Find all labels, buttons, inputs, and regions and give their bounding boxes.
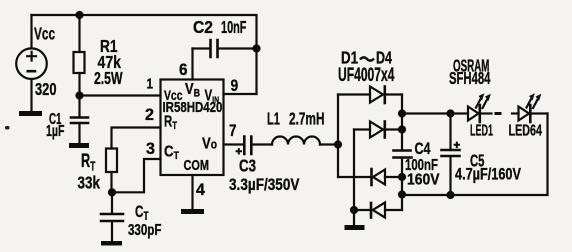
label 100nF [405, 156, 438, 173]
label 4.7µF/160V [455, 165, 521, 184]
capacitor C4 [394, 151, 412, 158]
LED LED1 [468, 93, 491, 122]
svg-text:9: 9 [231, 77, 239, 96]
label 160V [407, 172, 440, 189]
svg-text:6: 6 [179, 60, 188, 79]
label SFH484 [449, 70, 491, 89]
svg-text:1: 1 [147, 75, 154, 92]
ground (below C1) [69, 143, 89, 148]
label R1 [100, 38, 118, 57]
label RT [81, 151, 96, 174]
source Vcc [16, 15, 47, 111]
label VIN (IC pin name) [205, 86, 220, 106]
svg-text:3: 3 [146, 139, 155, 158]
junction dot pin1 node [75, 91, 83, 99]
label CT [135, 203, 149, 223]
svg-text:Vo: Vo [202, 135, 217, 153]
pin number 1 [147, 75, 154, 92]
svg-text:4.7µF/160V: 4.7µF/160V [455, 165, 521, 184]
svg-text:2.5W: 2.5W [94, 69, 123, 89]
wire pin 7 Vo [224, 143, 244, 145]
svg-text:UF4007x4: UF4007x4 [338, 65, 395, 85]
ground (below CT) [101, 241, 122, 246]
ground (bus B) [345, 210, 365, 230]
label ~ (of D1~D4) [360, 57, 374, 60]
wire top rail left [32, 14, 80, 16]
svg-text:4: 4 [196, 180, 206, 199]
pin number 9 [231, 77, 239, 96]
label C2 [193, 17, 213, 37]
inductor L1 [272, 137, 320, 145]
label Vo (IC pin name) [202, 135, 217, 153]
junction dot bus B/D4 [350, 206, 358, 214]
pin number 4 [196, 180, 206, 199]
junction dot C2/VIN [252, 44, 260, 52]
wire pin 6 stub [191, 49, 193, 80]
label 2.7mH [289, 109, 324, 129]
pin number 7 [229, 122, 236, 141]
LED LED64 [519, 93, 542, 122]
junction dot bus/D2 [398, 125, 406, 133]
resistor RT [106, 149, 117, 193]
label L1 [267, 110, 280, 129]
svg-text:100nF: 100nF [405, 156, 438, 173]
label 3.3µF/350V [229, 176, 300, 195]
wire right bus top [401, 95, 403, 151]
label VB (IC pin name) [185, 81, 200, 100]
wire LED64 to right edge [532, 112, 548, 114]
wire LED64 anode stub [512, 112, 519, 114]
svg-text:C3: C3 [239, 157, 256, 176]
svg-text:7: 7 [229, 122, 236, 141]
label 1µF [46, 122, 64, 140]
junction dot C5 top [446, 109, 454, 117]
svg-text:COM: COM [184, 156, 209, 173]
wire right bus lower [401, 159, 403, 210]
svg-text:320: 320 [35, 80, 57, 100]
pin number 6 [179, 60, 188, 79]
wire pin 9 [224, 93, 257, 95]
wire node A bus [337, 95, 339, 178]
capacitor C1 [71, 96, 88, 144]
label D1 (of D1~D4) [341, 49, 358, 68]
svg-text:Vcc: Vcc [34, 24, 55, 44]
wire right edge + bottom rail [402, 114, 548, 196]
capacitor C5 polarized [442, 114, 461, 196]
label 2.5W [94, 69, 123, 89]
label CT (IC pin name) [164, 143, 180, 162]
svg-text:C2: C2 [193, 17, 213, 37]
label C1 [49, 110, 62, 128]
svg-text:L1: L1 [267, 110, 280, 129]
pin number 3 [146, 139, 155, 158]
label RT (IC pin name) [164, 112, 177, 133]
label C4 [415, 139, 432, 158]
ground (below source) [19, 111, 42, 116]
svg-text:33k: 33k [78, 174, 101, 193]
diode D3 [338, 169, 402, 185]
label C5 [470, 151, 484, 171]
wire LED1 cathode stub [481, 112, 492, 114]
junction dot bus/bottom rail [398, 190, 406, 198]
diode D1 [338, 87, 402, 104]
label 47k [98, 52, 121, 72]
svg-text:1µF: 1µF [46, 122, 64, 140]
junction dot C5 bottom [446, 191, 454, 199]
label OSRAM [453, 57, 489, 77]
pin number 2 [145, 105, 154, 124]
svg-text:SFH484: SFH484 [449, 70, 491, 89]
label COM (IC pin name) [184, 156, 209, 173]
svg-text:3.3µF/350V: 3.3µF/350V [229, 176, 300, 195]
wire pin 2 to RT [112, 128, 161, 149]
svg-text:330pF: 330pF [128, 220, 162, 238]
junction dot R1/rail [75, 11, 83, 19]
wire L1 to node A [320, 143, 338, 145]
label Vcc (IC pin name) [164, 88, 183, 104]
svg-text:2.7mH: 2.7mH [289, 109, 324, 129]
label D4 (of D1~D4) [376, 49, 392, 69]
label LED64 [509, 122, 543, 139]
label IR58HD420 [163, 99, 223, 116]
svg-text:10nF: 10nF [221, 18, 246, 37]
label 330pF [128, 220, 162, 238]
wire top LED rail [402, 112, 468, 114]
IC U1 IR58HD420 [161, 80, 224, 176]
series dash [495, 112, 502, 115]
label UF4007x4 [338, 65, 395, 85]
junction dot node A [334, 140, 342, 148]
svg-text:2: 2 [145, 105, 154, 124]
label 33k [78, 174, 101, 193]
junction dot RT/CT node [108, 188, 116, 196]
junction dot bus/D3 [398, 173, 406, 181]
diode D2 [354, 122, 402, 138]
capacitor C2 [193, 40, 257, 57]
resistor R1 [74, 15, 85, 96]
wire to pin 1 [80, 94, 161, 96]
diode D4 [354, 203, 402, 218]
label 320 [35, 80, 57, 100]
wire pin 3 to node [112, 159, 161, 192]
svg-text:LED64: LED64 [509, 122, 543, 139]
svg-text:LED1: LED1 [470, 122, 493, 139]
junction dot bus/LED rail [398, 109, 406, 117]
label 10nF [221, 18, 246, 37]
svg-text:160V: 160V [407, 172, 440, 189]
wire top rail to VIN [80, 15, 257, 94]
label Vcc [34, 24, 55, 44]
ground (COM pin 4) [181, 175, 204, 214]
label C3 [239, 157, 256, 176]
wire ground bus B [353, 130, 355, 211]
label LED1 [470, 122, 493, 139]
capacitor C3 polarized [236, 137, 272, 155]
capacitor CT [101, 192, 123, 241]
scan speck artifact [5, 126, 10, 130]
